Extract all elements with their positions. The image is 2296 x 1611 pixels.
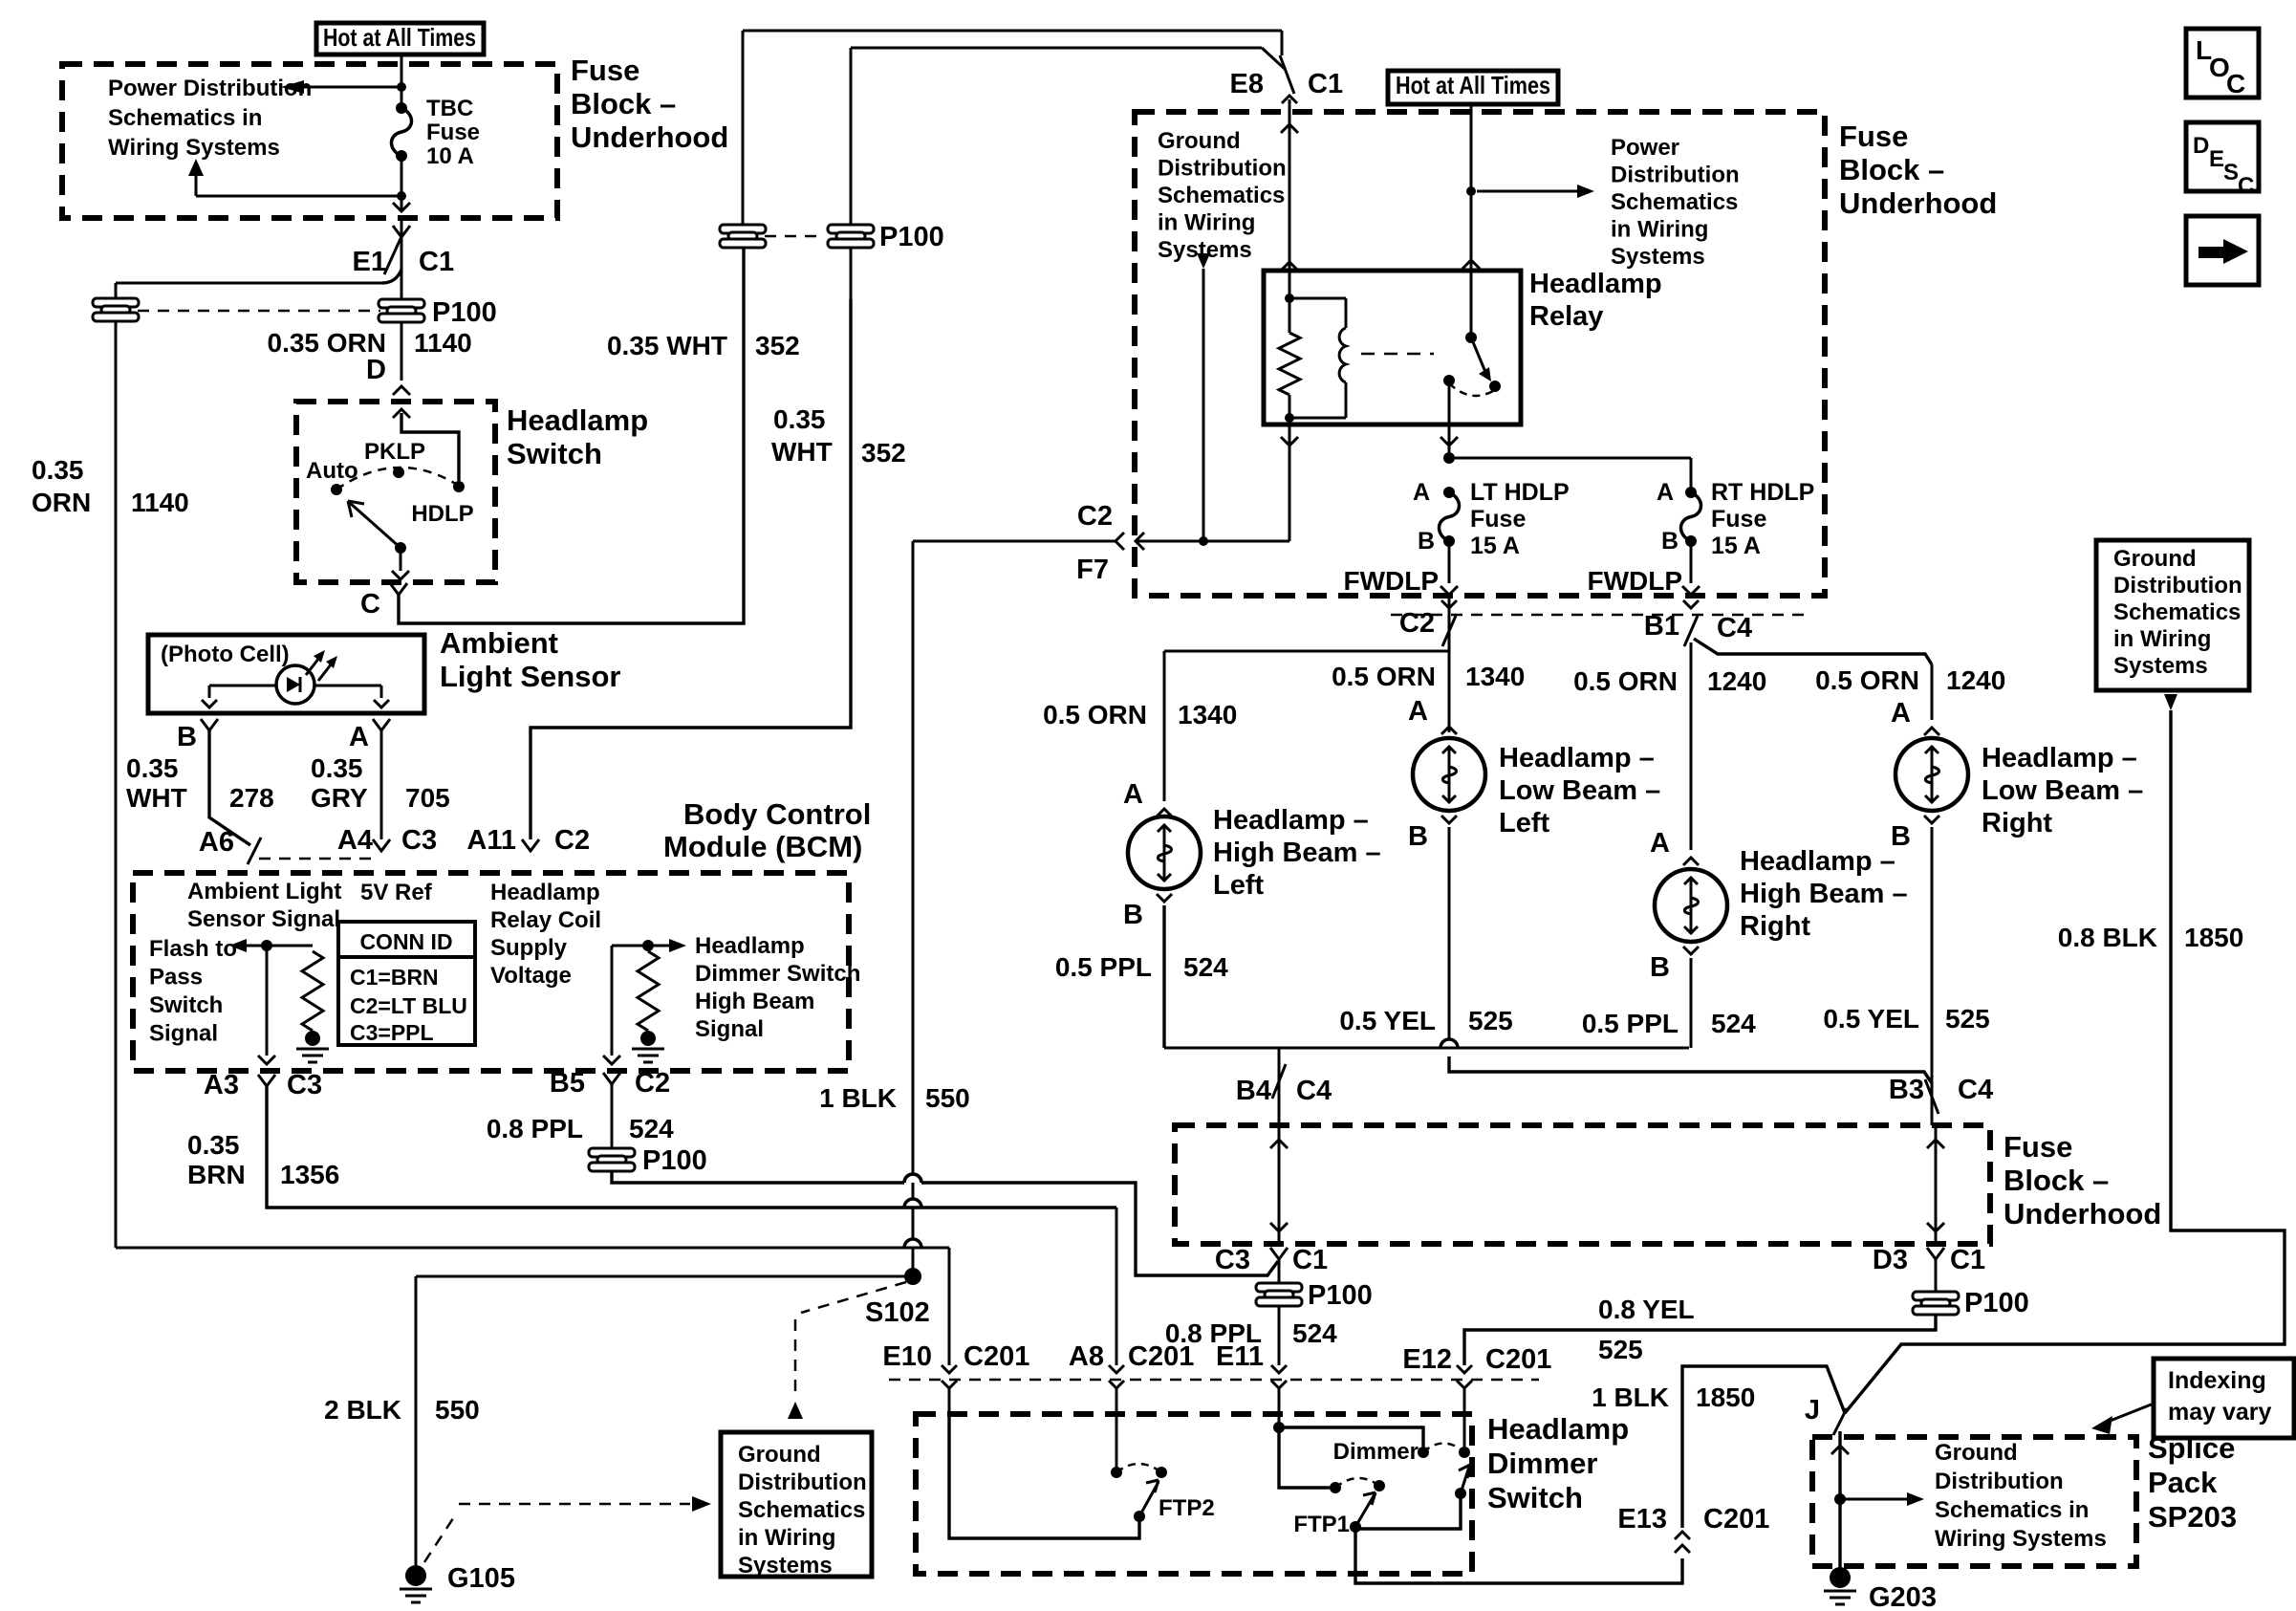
svg-text:B3: B3 xyxy=(1889,1075,1924,1105)
svg-text:Distribution: Distribution xyxy=(1611,163,1740,188)
svg-text:C4: C4 xyxy=(1717,613,1752,643)
svg-text:B: B xyxy=(1408,821,1428,852)
svg-text:1240: 1240 xyxy=(1707,666,1766,696)
svg-text:A: A xyxy=(349,722,369,752)
svg-text:A: A xyxy=(1408,696,1428,727)
svg-text:Headlamp –: Headlamp – xyxy=(1982,743,2137,773)
svg-text:Low Beam –: Low Beam – xyxy=(1499,775,1660,806)
svg-text:LT HDLP: LT HDLP xyxy=(1470,479,1570,506)
svg-text:524: 524 xyxy=(629,1114,674,1143)
svg-text:Wiring Systems: Wiring Systems xyxy=(1935,1526,2107,1552)
svg-text:Relay Coil: Relay Coil xyxy=(490,907,601,933)
svg-text:Ground: Ground xyxy=(738,1442,821,1468)
svg-text:D: D xyxy=(2193,133,2209,159)
svg-text:2 BLK: 2 BLK xyxy=(324,1395,401,1425)
svg-text:0.35: 0.35 xyxy=(32,455,84,485)
svg-text:Signal: Signal xyxy=(695,1016,764,1042)
svg-text:Power Distribution: Power Distribution xyxy=(108,76,312,101)
svg-text:0.35: 0.35 xyxy=(126,753,179,783)
svg-text:C4: C4 xyxy=(1958,1075,1993,1105)
svg-text:A: A xyxy=(1123,779,1143,810)
svg-text:C201: C201 xyxy=(1128,1341,1194,1372)
svg-text:D: D xyxy=(366,355,386,385)
svg-text:Switch: Switch xyxy=(149,992,223,1018)
svg-text:Schematics: Schematics xyxy=(2113,599,2241,625)
svg-text:0.35: 0.35 xyxy=(187,1130,240,1160)
svg-text:SP203: SP203 xyxy=(2148,1500,2237,1534)
svg-text:(Photo Cell): (Photo Cell) xyxy=(161,642,290,667)
svg-text:Distribution: Distribution xyxy=(738,1469,867,1495)
svg-text:Underhood: Underhood xyxy=(1839,186,1997,220)
svg-text:in Wiring: in Wiring xyxy=(2113,626,2211,652)
svg-text:GRY: GRY xyxy=(311,783,368,813)
svg-text:0.8 BLK: 0.8 BLK xyxy=(2058,923,2157,952)
svg-text:E11: E11 xyxy=(1216,1341,1264,1372)
svg-text:Fuse: Fuse xyxy=(571,54,639,87)
svg-text:Ambient: Ambient xyxy=(440,626,558,660)
svg-text:C3: C3 xyxy=(401,825,437,856)
svg-text:Right: Right xyxy=(1982,808,2052,838)
svg-text:FTP2: FTP2 xyxy=(1159,1495,1215,1521)
svg-text:Headlamp: Headlamp xyxy=(490,880,600,905)
svg-text:1850: 1850 xyxy=(2184,923,2243,952)
svg-text:0.8 PPL: 0.8 PPL xyxy=(487,1114,583,1143)
svg-text:352: 352 xyxy=(755,331,800,360)
svg-text:Left: Left xyxy=(1213,870,1265,901)
svg-text:C2: C2 xyxy=(554,825,590,856)
svg-text:C1: C1 xyxy=(1292,1245,1328,1275)
svg-text:Systems: Systems xyxy=(738,1553,833,1578)
svg-text:Ground: Ground xyxy=(2113,546,2197,572)
svg-text:524: 524 xyxy=(1183,952,1228,982)
svg-text:BRN: BRN xyxy=(187,1160,246,1189)
svg-text:352: 352 xyxy=(861,438,906,468)
svg-text:0.8 YEL: 0.8 YEL xyxy=(1598,1295,1695,1324)
svg-text:525: 525 xyxy=(1468,1006,1513,1035)
svg-text:B: B xyxy=(1650,952,1670,983)
svg-text:Fuse: Fuse xyxy=(426,120,480,145)
svg-text:Fuse: Fuse xyxy=(2004,1130,2072,1164)
svg-text:High Beam: High Beam xyxy=(695,989,814,1014)
svg-text:Fuse: Fuse xyxy=(1470,506,1526,533)
svg-text:Body Control: Body Control xyxy=(683,797,871,831)
svg-text:0.35 WHT: 0.35 WHT xyxy=(607,331,727,360)
svg-text:Headlamp –: Headlamp – xyxy=(1740,846,1895,877)
svg-text:Fuse: Fuse xyxy=(1711,506,1766,533)
svg-text:C: C xyxy=(2238,173,2254,199)
svg-text:WHT: WHT xyxy=(771,437,833,467)
svg-text:Underhood: Underhood xyxy=(571,120,728,154)
svg-text:1356: 1356 xyxy=(280,1160,339,1189)
svg-text:Headlamp: Headlamp xyxy=(507,403,648,437)
svg-text:Ground: Ground xyxy=(1935,1440,2018,1466)
svg-text:B1: B1 xyxy=(1644,611,1679,642)
svg-text:C4: C4 xyxy=(1296,1076,1332,1106)
svg-text:Power: Power xyxy=(1611,135,1679,161)
svg-text:Distribution: Distribution xyxy=(1935,1469,2064,1494)
svg-text:705: 705 xyxy=(405,783,450,813)
svg-text:Switch: Switch xyxy=(1487,1481,1583,1514)
svg-text:Block –: Block – xyxy=(571,87,676,120)
svg-text:Voltage: Voltage xyxy=(490,963,572,989)
svg-text:Block –: Block – xyxy=(1839,153,1944,186)
svg-text:C3: C3 xyxy=(1215,1245,1250,1275)
svg-text:A: A xyxy=(1891,698,1911,729)
svg-text:Schematics: Schematics xyxy=(738,1497,865,1523)
svg-text:A: A xyxy=(1413,479,1430,506)
svg-text:0.5 ORN: 0.5 ORN xyxy=(1573,666,1678,696)
svg-text:C1: C1 xyxy=(1950,1245,1985,1275)
svg-text:A4: A4 xyxy=(337,825,373,856)
svg-text:0.35: 0.35 xyxy=(311,753,363,783)
svg-text:C: C xyxy=(360,589,380,620)
svg-text:Schematics in: Schematics in xyxy=(1935,1497,2089,1523)
svg-text:TBC: TBC xyxy=(426,96,473,121)
svg-text:Schematics: Schematics xyxy=(1158,183,1285,208)
svg-text:P100: P100 xyxy=(432,297,497,328)
svg-text:Signal: Signal xyxy=(149,1021,218,1047)
svg-text:Pack: Pack xyxy=(2148,1466,2218,1499)
svg-text:0.5 ORN: 0.5 ORN xyxy=(1332,662,1436,691)
svg-text:FWDLP: FWDLP xyxy=(1587,566,1682,596)
svg-text:Ambient Light: Ambient Light xyxy=(187,879,341,904)
svg-text:B5: B5 xyxy=(550,1068,585,1099)
svg-text:C201: C201 xyxy=(1485,1344,1551,1375)
svg-text:CONN ID: CONN ID xyxy=(359,929,452,954)
svg-text:Auto: Auto xyxy=(306,458,358,484)
svg-text:WHT: WHT xyxy=(126,783,187,813)
svg-text:Headlamp –: Headlamp – xyxy=(1213,805,1369,836)
svg-text:Headlamp: Headlamp xyxy=(695,933,805,959)
svg-text:Right: Right xyxy=(1740,911,1810,942)
svg-text:Schematics: Schematics xyxy=(1611,189,1738,215)
svg-text:E10: E10 xyxy=(882,1341,932,1372)
svg-text:550: 550 xyxy=(435,1395,480,1425)
svg-text:Dimmer Switch: Dimmer Switch xyxy=(695,961,860,987)
svg-text:A6: A6 xyxy=(199,827,234,858)
svg-text:in Wiring: in Wiring xyxy=(1158,210,1255,236)
svg-text:FWDLP: FWDLP xyxy=(1343,566,1439,596)
svg-text:S: S xyxy=(2223,160,2239,185)
svg-text:Hot at All Times: Hot at All Times xyxy=(1396,71,1550,99)
svg-text:A3: A3 xyxy=(204,1070,239,1100)
svg-text:Light Sensor: Light Sensor xyxy=(440,660,620,693)
svg-text:1140: 1140 xyxy=(131,488,189,517)
svg-text:1140: 1140 xyxy=(414,328,472,358)
svg-text:1 BLK: 1 BLK xyxy=(1592,1382,1669,1412)
svg-text:C2: C2 xyxy=(1077,501,1113,532)
svg-text:Hot at All Times: Hot at All Times xyxy=(323,23,476,52)
svg-text:may vary: may vary xyxy=(2168,1399,2272,1426)
svg-text:1 BLK: 1 BLK xyxy=(819,1083,897,1113)
svg-text:C1=BRN: C1=BRN xyxy=(350,965,439,990)
svg-text:P100: P100 xyxy=(879,222,944,252)
svg-text:525: 525 xyxy=(1945,1004,1990,1034)
svg-text:0.5 PPL: 0.5 PPL xyxy=(1055,952,1152,982)
svg-text:E: E xyxy=(2209,146,2224,172)
svg-text:G105: G105 xyxy=(447,1563,515,1594)
svg-text:E13: E13 xyxy=(1617,1504,1667,1535)
svg-text:Supply: Supply xyxy=(490,935,568,961)
svg-text:P100: P100 xyxy=(642,1145,707,1176)
svg-text:C1: C1 xyxy=(1308,69,1343,99)
svg-text:G203: G203 xyxy=(1869,1582,1937,1611)
svg-text:524: 524 xyxy=(1711,1009,1756,1038)
svg-text:C201: C201 xyxy=(1703,1504,1769,1535)
svg-text:1240: 1240 xyxy=(1946,665,2005,695)
svg-text:10 A: 10 A xyxy=(426,143,474,169)
svg-text:D3: D3 xyxy=(1873,1245,1908,1275)
svg-text:C2: C2 xyxy=(1399,608,1435,639)
svg-text:B: B xyxy=(1891,821,1911,852)
svg-text:F7: F7 xyxy=(1076,555,1109,585)
svg-text:High Beam –: High Beam – xyxy=(1740,879,1908,909)
svg-text:Flash to: Flash to xyxy=(149,936,237,962)
svg-text:Dimmer: Dimmer xyxy=(1333,1439,1419,1465)
svg-text:Relay: Relay xyxy=(1529,301,1603,332)
svg-text:0.35: 0.35 xyxy=(773,404,826,434)
svg-text:278: 278 xyxy=(229,783,274,813)
svg-text:0.5 ORN: 0.5 ORN xyxy=(1043,700,1147,729)
svg-text:1340: 1340 xyxy=(1178,700,1237,729)
svg-text:Headlamp: Headlamp xyxy=(1529,269,1662,299)
svg-text:High Beam –: High Beam – xyxy=(1213,838,1381,868)
svg-text:B: B xyxy=(177,722,197,752)
svg-text:0.5 ORN: 0.5 ORN xyxy=(1815,665,1919,695)
svg-text:Schematics in: Schematics in xyxy=(108,105,262,131)
svg-text:Headlamp: Headlamp xyxy=(1487,1412,1629,1446)
svg-text:0.5 PPL: 0.5 PPL xyxy=(1582,1009,1679,1038)
svg-text:0.35 ORN: 0.35 ORN xyxy=(268,328,387,358)
svg-text:Low Beam –: Low Beam – xyxy=(1982,775,2143,806)
svg-text:B: B xyxy=(1418,528,1435,555)
svg-text:5V Ref: 5V Ref xyxy=(360,880,433,905)
svg-text:525: 525 xyxy=(1598,1335,1643,1364)
svg-text:15 A: 15 A xyxy=(1470,533,1520,559)
svg-text:A8: A8 xyxy=(1069,1341,1104,1372)
svg-text:PKLP: PKLP xyxy=(364,439,425,465)
svg-text:B4: B4 xyxy=(1236,1076,1271,1106)
svg-text:C3=PPL: C3=PPL xyxy=(350,1020,434,1045)
svg-text:Block –: Block – xyxy=(2004,1164,2109,1197)
svg-text:Indexing: Indexing xyxy=(2168,1367,2266,1394)
svg-text:C1: C1 xyxy=(419,247,454,277)
svg-text:P100: P100 xyxy=(1964,1288,2029,1318)
svg-text:0.5 YEL: 0.5 YEL xyxy=(1339,1006,1436,1035)
svg-text:B: B xyxy=(1123,900,1143,930)
svg-text:Fuse: Fuse xyxy=(1839,120,1908,153)
svg-text:in Wiring: in Wiring xyxy=(1611,217,1708,243)
svg-text:Ground: Ground xyxy=(1158,128,1241,154)
svg-text:C201: C201 xyxy=(964,1341,1029,1372)
svg-text:550: 550 xyxy=(925,1083,970,1113)
svg-text:524: 524 xyxy=(1292,1318,1337,1348)
svg-text:S102: S102 xyxy=(865,1297,930,1328)
svg-text:Pass: Pass xyxy=(149,965,203,991)
svg-text:ORN: ORN xyxy=(32,488,91,517)
svg-text:HDLP: HDLP xyxy=(411,501,473,527)
svg-text:Headlamp –: Headlamp – xyxy=(1499,743,1655,773)
svg-text:Distribution: Distribution xyxy=(1158,156,1287,182)
svg-text:Distribution: Distribution xyxy=(2113,573,2242,599)
svg-text:1340: 1340 xyxy=(1465,662,1525,691)
svg-text:C2: C2 xyxy=(635,1068,670,1099)
svg-text:Systems: Systems xyxy=(2113,653,2208,679)
svg-text:B: B xyxy=(1661,528,1679,555)
svg-text:FTP1: FTP1 xyxy=(1293,1512,1350,1537)
svg-text:Left: Left xyxy=(1499,808,1550,838)
svg-text:in Wiring: in Wiring xyxy=(738,1525,835,1551)
svg-text:Dimmer: Dimmer xyxy=(1487,1447,1597,1480)
svg-text:C: C xyxy=(2226,69,2245,98)
svg-text:Wiring Systems: Wiring Systems xyxy=(108,135,280,161)
svg-text:C3: C3 xyxy=(287,1070,322,1100)
svg-text:P100: P100 xyxy=(1308,1280,1373,1311)
svg-text:Sensor Signal: Sensor Signal xyxy=(187,906,340,932)
svg-text:A: A xyxy=(1657,479,1674,506)
svg-text:RT HDLP: RT HDLP xyxy=(1711,479,1814,506)
svg-text:Module (BCM): Module (BCM) xyxy=(663,830,862,863)
svg-text:A: A xyxy=(1650,828,1670,859)
svg-text:0.5 YEL: 0.5 YEL xyxy=(1823,1004,1919,1034)
svg-text:E12: E12 xyxy=(1402,1344,1452,1375)
svg-text:15 A: 15 A xyxy=(1711,533,1761,559)
svg-text:Systems: Systems xyxy=(1611,244,1705,270)
svg-text:C2=LT BLU: C2=LT BLU xyxy=(350,993,467,1018)
svg-text:Underhood: Underhood xyxy=(2004,1197,2161,1230)
svg-text:1850: 1850 xyxy=(1696,1382,1755,1412)
svg-text:A11: A11 xyxy=(466,825,516,856)
svg-text:Switch: Switch xyxy=(507,437,602,470)
svg-text:J: J xyxy=(1805,1395,1820,1426)
svg-text:E1: E1 xyxy=(353,247,386,277)
svg-text:E8: E8 xyxy=(1230,69,1264,99)
